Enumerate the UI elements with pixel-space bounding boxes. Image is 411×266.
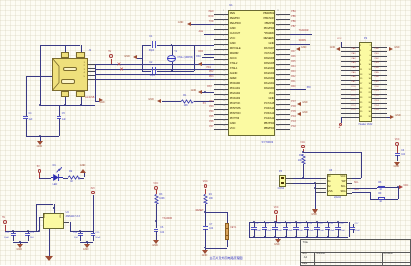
label GND <box>301 47 306 49</box>
capacitor C9 top lead <box>265 222 266 227</box>
pin U1 right 19 lead <box>276 104 290 105</box>
pin U1 right 14 number <box>277 76 279 78</box>
pin U1 right 24 lead <box>276 129 290 130</box>
net label PF4 <box>209 111 213 113</box>
label C14 <box>319 223 323 225</box>
label GND <box>311 214 317 217</box>
net label PC5 <box>351 109 355 111</box>
wire caps bottom left <box>13 242 27 243</box>
wire net ALE <box>204 34 215 35</box>
ground U3 <box>312 209 318 214</box>
label C3 <box>401 150 404 152</box>
net label PB4 <box>291 11 295 13</box>
pin P2 left 25 lead <box>341 103 359 104</box>
IC U3 designator <box>329 170 332 173</box>
ground arrow header left <box>336 47 340 51</box>
pin U1 right 22 lead <box>276 119 290 120</box>
wire <box>202 64 214 65</box>
pin U1 right 24 number <box>277 126 279 128</box>
junction <box>204 211 206 213</box>
capacitor C3 <box>395 153 400 154</box>
wire osc <box>202 57 214 58</box>
net label PD4 <box>375 105 379 107</box>
capacitor C22 bottom lead <box>13 235 14 241</box>
pin U1 right 5 number <box>277 31 279 33</box>
pin P2 left 31 lead <box>341 117 359 118</box>
label CON2 <box>278 188 284 190</box>
pin U1 left 21 lead <box>214 114 228 115</box>
wire gnd stub <box>137 58 142 59</box>
LED D1 <box>51 167 65 184</box>
ground cap row <box>275 239 281 243</box>
pin P2 number 31 <box>360 116 362 118</box>
pin P2 right 24 lead <box>372 98 387 99</box>
label C7 <box>209 224 212 226</box>
resistor R1 <box>181 99 194 104</box>
wire reg out vertical <box>70 222 71 231</box>
pin P2 number 2 <box>370 45 371 47</box>
wire led to R2 <box>63 178 68 179</box>
IC U1 body <box>228 10 275 135</box>
pin U1 left 13 lead <box>214 74 228 75</box>
pin U1 left 19 number <box>223 101 225 103</box>
label C6 <box>160 227 163 229</box>
pin U1 right 2 lead <box>276 19 290 20</box>
wire shield stem bottom-right <box>81 97 82 105</box>
pin U1 left 6 number <box>223 36 224 38</box>
pin U1 right 16 number <box>277 86 279 88</box>
label R8 <box>378 182 381 184</box>
pin U3 right 0 lead <box>347 178 352 179</box>
net label RESET <box>196 210 204 212</box>
junction <box>295 221 297 223</box>
pin U1 left 22 lead <box>214 119 228 120</box>
junction <box>86 241 88 243</box>
IC U1 part number <box>262 141 274 144</box>
pin U3 right 2 lead <box>347 188 352 189</box>
pin U1 right 12 number <box>277 66 279 68</box>
wire cap C5 top lead <box>59 105 60 116</box>
net label PA6 <box>291 56 295 58</box>
net label PD2 <box>375 95 379 97</box>
wire p3 net2 <box>293 183 315 184</box>
net label PF5 <box>209 116 213 118</box>
pin P2 number 19 <box>360 88 362 90</box>
label GND <box>191 90 196 92</box>
pin P2 number 15 <box>360 78 362 80</box>
pin U1 left 12 name <box>230 68 238 71</box>
pin P2 number 24 <box>369 97 371 99</box>
pin U1 left 7 number <box>223 41 224 43</box>
pin P2 right 16 lead <box>372 80 387 81</box>
label C22 value <box>4 237 9 239</box>
pin U1 left 17 name <box>230 93 240 96</box>
junction <box>64 104 66 106</box>
pin U1 left 11 number <box>223 61 225 63</box>
net label PA5 <box>291 61 295 63</box>
pin U1 left 4 number <box>223 26 224 28</box>
pin U1 left 2 lead <box>214 19 228 20</box>
label C3 value <box>401 154 405 156</box>
label C23 value <box>30 237 34 239</box>
pin U1 left 5 name <box>230 33 240 36</box>
wire scl <box>352 188 377 189</box>
capacitor C9 <box>262 227 267 228</box>
pin J1-3 lead <box>88 71 95 72</box>
pin U1 right 11 number <box>277 61 279 63</box>
pin P2 number 18 <box>369 83 371 85</box>
junction <box>204 247 206 249</box>
net label small <box>203 103 206 105</box>
power arrow vcc right <box>399 185 403 189</box>
capacitor C5 <box>57 116 62 117</box>
junction <box>306 236 308 238</box>
pin U1 right 6 number <box>277 36 279 38</box>
pin U1 left 15 lead <box>214 84 228 85</box>
net label PD3 <box>209 76 213 78</box>
pin U1 right 14 name <box>264 78 274 81</box>
pin U1 right 10 name <box>264 58 274 61</box>
pin U1 right 9 lead <box>276 54 290 55</box>
wire scl up <box>377 187 378 188</box>
pin U1 left 6 name <box>230 38 235 41</box>
wire R2 right <box>80 178 84 179</box>
resistor R8 <box>378 186 385 189</box>
resistor R4 <box>203 194 208 204</box>
pin U1 right 7 number <box>277 41 279 43</box>
pin U3 A1 lead <box>315 183 326 184</box>
net label PA3 <box>291 71 295 73</box>
regulator U4 pin text VIN <box>60 214 62 218</box>
pin U1 right 18 number <box>277 96 279 98</box>
wire reg tab stem <box>54 204 55 213</box>
capacitor C8 top lead <box>254 222 255 227</box>
pin P2 number 4 <box>370 50 371 52</box>
regulator U4 pin text GND <box>44 213 46 218</box>
label C9 value <box>266 230 271 232</box>
connector P3 designator <box>279 171 282 173</box>
wire cap C4 bottom lead <box>26 119 27 136</box>
label GND <box>83 249 89 252</box>
capacitor C6 <box>154 229 159 230</box>
wire reset gnd stem <box>205 248 206 251</box>
junction <box>314 187 316 189</box>
label C8 value <box>256 230 261 232</box>
junction <box>38 230 40 232</box>
wire shield stem bottom-left <box>65 97 66 105</box>
pin U1 left 10 lead <box>214 59 228 60</box>
pin U1 right 9 name <box>264 53 274 56</box>
IC U3 body <box>327 174 348 196</box>
title block text Number <box>316 253 325 256</box>
label Header 16X2 <box>359 124 373 126</box>
ground arrow mcu right 3 <box>297 112 301 116</box>
net label TXADDR <box>162 218 172 220</box>
ground left caps <box>17 244 23 248</box>
label C10 value <box>277 230 282 232</box>
junction <box>302 151 304 153</box>
pin P2 right 20 lead <box>372 89 387 90</box>
ground arrow header right bottom <box>390 115 394 119</box>
net label PA7 <box>352 81 356 83</box>
wire crystal top lead <box>172 45 173 55</box>
pin U1 right 17 lead <box>276 94 290 95</box>
wire reset horiz <box>205 212 227 213</box>
junction <box>316 236 318 238</box>
wire gnd up <box>84 173 85 178</box>
pin U1 right 11 lead <box>276 64 290 65</box>
wire r7 to vcc pin <box>303 152 361 153</box>
net label PA2 <box>291 76 295 78</box>
pin U1 right 20 name <box>264 108 274 111</box>
wire reg gnd pin <box>49 229 50 256</box>
pin U3 SCL name <box>341 186 346 189</box>
junction <box>302 177 304 179</box>
net label RD0 <box>198 51 203 53</box>
connector P2 body <box>359 42 372 123</box>
wire r7 down <box>303 164 304 178</box>
pin U1 right 10 number <box>277 56 279 58</box>
pin U1 left 16 name <box>230 88 240 91</box>
resistor R2 <box>68 175 80 180</box>
wire xtal1 to MCU <box>194 45 214 46</box>
capacitor C10 <box>272 227 277 228</box>
pin P2 right 14 lead <box>372 75 387 76</box>
wire PDI <box>290 89 306 90</box>
pin U1 left 2 name <box>230 18 240 21</box>
pin U1 left 19 name <box>230 103 240 106</box>
connector J1 slot 2 <box>61 79 75 84</box>
wire loop bottom a <box>142 71 151 72</box>
pin U1 right 2 name <box>264 18 275 21</box>
pin P2 number 21 <box>360 92 362 94</box>
crystal Y1 <box>167 55 176 62</box>
label R3 value <box>159 198 164 200</box>
ground arrow LED <box>80 169 86 173</box>
label GND <box>124 56 130 59</box>
junction <box>39 104 41 106</box>
capacitor C12 <box>293 227 298 228</box>
wire TXADDR <box>290 34 312 35</box>
wire cap row left end <box>249 222 250 238</box>
no-ERC marker 2 <box>119 68 124 73</box>
net label PD2 <box>209 71 213 73</box>
net label PF2 <box>209 101 213 103</box>
title block divider 2 <box>382 252 383 265</box>
label R7 <box>299 155 302 157</box>
label R1 <box>183 95 186 97</box>
pin U1 left 1 lead <box>214 14 228 15</box>
pin P2 number 29 <box>360 111 362 113</box>
wire 5v stem <box>5 225 6 231</box>
label C7 value <box>209 228 213 230</box>
net label RXD <box>209 16 214 18</box>
pin U1 right 3 lead <box>276 24 290 25</box>
ground R3 circuit <box>153 240 159 244</box>
wire header bottom left stub <box>341 117 342 123</box>
pin U1 left 21 name <box>230 113 241 116</box>
capacitor C16 <box>335 227 340 228</box>
pin U1 right 23 name <box>264 123 274 126</box>
capacitor C24 <box>78 233 83 234</box>
pin U1 right 18 name <box>269 98 275 101</box>
label GND <box>395 115 400 117</box>
net label PC1 <box>351 90 355 92</box>
pin U1 right 18 lead <box>276 99 290 100</box>
wire usb net 4 <box>95 79 214 80</box>
pin U1 left 24 lead <box>214 129 228 130</box>
wire sda down <box>370 192 371 198</box>
net label PB2 <box>375 58 379 60</box>
pin U1 left 1 number <box>223 11 224 13</box>
pin U1 left 9 lead <box>214 54 228 55</box>
pin U1 right 15 name <box>264 83 274 86</box>
label C17 value <box>355 230 360 232</box>
wire r3 stem <box>156 190 157 194</box>
pin U1 left 3 name <box>230 23 241 26</box>
pin P2 number 13 <box>360 74 362 76</box>
pin P2 right 4 lead <box>372 51 387 52</box>
pin P2 left 15 lead <box>341 80 359 81</box>
junction <box>171 44 173 46</box>
net label PA0 <box>291 86 295 88</box>
label C6 value <box>160 232 164 234</box>
label C24 <box>73 232 77 234</box>
wire gnd stem left <box>20 242 21 244</box>
pin U1 right 8 lead <box>276 49 290 50</box>
pin U3 WP name <box>342 181 346 184</box>
label VCC right <box>403 185 408 187</box>
connector J1 shield pad top-left <box>61 52 69 58</box>
net label PF3 <box>209 106 213 108</box>
wire u3 vcc <box>352 178 361 179</box>
wire r8 right <box>385 187 398 188</box>
power port 3V3 <box>91 188 95 190</box>
capacitor C8 <box>251 227 256 228</box>
net label SDDIN <box>299 40 306 42</box>
pin U1 left 22 number <box>223 116 225 118</box>
label GND <box>37 146 43 149</box>
net label PB3 <box>375 62 379 64</box>
label C11 <box>287 223 291 225</box>
label C4 <box>29 113 32 115</box>
capacitor C14 top lead <box>317 222 318 227</box>
label R4 value <box>209 198 213 200</box>
pin U1 right 13 name <box>264 73 274 76</box>
pin U1 left 21 number <box>223 111 225 113</box>
wire in rail <box>5 231 39 232</box>
pin P2 number 23 <box>360 97 362 99</box>
pin U1 right 24 name <box>264 128 274 131</box>
capacitor C15 <box>325 227 330 228</box>
label Y1 <box>174 51 177 53</box>
label R8 value <box>379 189 382 191</box>
pin U3 VCC name <box>340 176 345 179</box>
net label PD1 <box>375 90 379 92</box>
wire left vertical <box>40 45 41 105</box>
title block text Revision <box>383 253 393 256</box>
pin P2 right 6 lead <box>372 56 387 57</box>
pin U1 left 13 name <box>230 73 237 76</box>
pin U1 left 24 number <box>223 126 225 128</box>
title block text Size <box>302 253 307 256</box>
capacitor C7 <box>203 226 208 227</box>
label C25 <box>95 232 99 234</box>
pin U1 left 12 lead <box>214 69 228 70</box>
connector J1 shield pad top-right <box>76 52 84 58</box>
capacitor C24 bottom lead <box>80 235 81 241</box>
pin U3 VSS lead <box>315 192 326 193</box>
pin U1 left 12 number <box>223 66 225 68</box>
wire c3 stem <box>397 146 398 153</box>
wire cap C4 top lead <box>26 76 27 116</box>
pin P2 number 27 <box>360 107 362 109</box>
pin U3 SDA name <box>340 191 345 194</box>
pin P2 right 8 lead <box>372 61 387 62</box>
caption chinese <box>210 257 243 260</box>
pin U1 left 19 lead <box>214 104 228 105</box>
wire caps bottom right <box>80 242 93 243</box>
wire top from shield pads <box>40 45 80 46</box>
pin J1-5 lead <box>88 79 95 80</box>
regulator U4 part <box>66 216 80 218</box>
pin P2 left 9 lead <box>341 66 359 67</box>
pin P2 number 30 <box>369 111 371 113</box>
pin U1 right 21 lead <box>276 114 290 115</box>
pin P2 number 8 <box>370 60 371 62</box>
capacitor C15 top lead <box>328 222 329 227</box>
pin P2 right 2 lead <box>372 47 387 48</box>
label miniUSB <box>85 97 94 99</box>
title block divider 1 <box>314 252 315 265</box>
connector J1 shield pad bottom-right <box>76 91 84 97</box>
net label PB7 <box>291 26 295 28</box>
wire u3 gnd <box>315 192 316 209</box>
pin P2 number 28 <box>369 107 371 109</box>
pin U1 right 6 lead <box>276 39 290 40</box>
net label PB5 <box>291 16 295 18</box>
pin P2 number 9 <box>360 64 361 66</box>
junction <box>171 70 173 72</box>
pin U1 left 8 number <box>223 46 224 48</box>
pin U1 right 4 number <box>277 26 279 28</box>
net label PB1 <box>375 53 379 55</box>
pin U1 left 20 number <box>223 106 225 108</box>
label C1 <box>149 36 152 38</box>
pin P2 right 30 lead <box>372 113 387 114</box>
pin U3 A0 name <box>328 176 331 179</box>
pin P2 number 12 <box>369 69 371 71</box>
pin U1 right 12 lead <box>276 69 290 70</box>
pin U1 right 21 name <box>264 113 274 116</box>
regulator U4 body <box>43 213 64 229</box>
label LED <box>53 184 58 186</box>
label C5 <box>62 113 65 115</box>
pin U1 right 19 name <box>264 103 274 106</box>
net label PD3 <box>375 100 379 102</box>
wire reg in vertical <box>39 217 40 231</box>
pin U1 right 6 name <box>264 38 275 41</box>
capacitor C23 bottom lead <box>28 235 29 241</box>
title block text Title <box>303 241 308 244</box>
net label PC7 <box>291 101 295 103</box>
junction <box>253 236 255 238</box>
pin P2 number 14 <box>369 74 371 76</box>
junction <box>253 221 255 223</box>
wire reg tab loop top <box>36 204 53 205</box>
wire usb pins vertical tie <box>95 64 96 80</box>
ground <box>37 141 43 145</box>
